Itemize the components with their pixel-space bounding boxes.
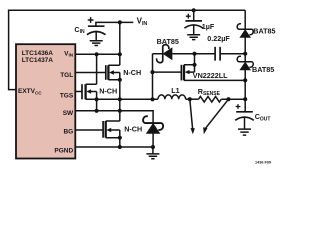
wire sense line 2 <box>206 99 229 128</box>
transistor Q3 N-CH (bottom sync) <box>102 121 104 138</box>
diode D4 BAT85 (second right) <box>237 56 253 70</box>
node dot Q3 source <box>118 136 122 140</box>
wire right rail top (rail corner to D3) <box>244 10 246 29</box>
ground (COUT) <box>238 129 251 135</box>
node dot SW rail x Q1 column <box>118 97 122 101</box>
transistor Q2 N-CH (small top) <box>81 84 83 99</box>
svg-text:1436 F09: 1436 F09 <box>255 161 271 165</box>
arrow sense 2 <box>203 127 207 134</box>
wire VIN column vertical (to Q1 drain) <box>119 22 121 65</box>
wire TGL to Q1 gate <box>75 72 106 74</box>
wire SW pin run <box>75 111 153 123</box>
capacitor 1uF plus sign <box>186 14 191 19</box>
diode D1 catch schottky <box>143 116 163 134</box>
svg-text:N-CH: N-CH <box>99 86 117 95</box>
node dot SW pin x Q2 drop <box>95 109 99 113</box>
svg-text:1µF: 1µF <box>202 22 215 31</box>
svg-text:0.22µF: 0.22µF <box>207 34 230 43</box>
node dot VN drain <box>192 63 196 67</box>
node dot output rail x RSENSE <box>243 97 247 101</box>
svg-text:VN2222LL: VN2222LL <box>193 71 228 80</box>
transistor Q4 VN2222LL <box>180 65 182 81</box>
svg-text:TGS: TGS <box>60 93 74 100</box>
capacitor CIN plates <box>88 25 105 27</box>
ground (1uF) <box>187 35 200 40</box>
wire L1 to RSENSE <box>186 98 199 100</box>
IC U1 LTC1436A/LTC1437A body <box>16 44 75 158</box>
wire BG to Q3 gate <box>75 129 103 131</box>
wire charge pump row <box>153 53 246 55</box>
node dot pump x right rail <box>243 52 247 56</box>
node dot PGND x Q3 <box>118 145 122 149</box>
svg-text:CIN: CIN <box>74 25 85 35</box>
wire VN gate lead <box>153 71 182 73</box>
svg-text:PGND: PGND <box>54 147 73 154</box>
node dot SW pin x Q1/Q3 column <box>118 109 122 113</box>
transistor Q1 N-CH (top main) <box>105 65 107 80</box>
wire RSENSE to output rail <box>221 98 245 100</box>
wire catch diode anode to PGND <box>152 133 154 147</box>
node dot L1/RSENSE junction <box>188 97 192 101</box>
node dot VIN column <box>118 20 122 24</box>
ground (CIN) <box>90 41 103 46</box>
wire switch node rail (sources to L1) <box>86 98 158 100</box>
wire EXTVCC left rail (top rail to EXTVCC pin) <box>9 10 246 89</box>
wire VN source to output rail <box>184 79 245 81</box>
node dot PGND x catch diode <box>151 145 155 149</box>
wire D3 to pump node <box>244 37 246 53</box>
svg-text:SW: SW <box>63 110 74 117</box>
node dot output rail x VN source <box>243 78 247 82</box>
inductor L1 <box>158 95 186 99</box>
wire Q3 source drop <box>119 138 121 147</box>
node dot 1uF tap on top rail <box>192 8 196 12</box>
node dot SW rail x Q2 <box>95 97 99 101</box>
wire TGS to Q2 gate <box>75 91 82 93</box>
diode D2 BAT85 (pointing left) <box>157 45 173 63</box>
capacitor 1uF plates <box>185 20 202 22</box>
wire Q1 source to Q3 drain column <box>119 80 121 121</box>
svg-text:BAT85: BAT85 <box>157 37 179 46</box>
node dot boost column x VN gate <box>150 70 154 74</box>
wire Q2 source drop <box>96 99 98 111</box>
svg-text:L1: L1 <box>171 86 179 95</box>
svg-text:N-CH: N-CH <box>123 68 141 77</box>
svg-text:N-CH: N-CH <box>124 124 142 133</box>
wire sense line 1 <box>190 99 193 129</box>
diode D3 BAT85 (top right) <box>237 24 253 38</box>
svg-text:COUT: COUT <box>255 112 271 122</box>
capacitor 1uF (lead) <box>193 10 195 21</box>
node dot Q1 source <box>118 78 122 82</box>
node dot VIN pin x VIN column <box>118 52 122 56</box>
capacitor COUT plates <box>236 111 253 113</box>
svg-text:BG: BG <box>63 129 73 136</box>
capacitor 0.22uF <box>215 47 220 61</box>
svg-text:VIN: VIN <box>137 17 148 28</box>
svg-text:RSENSE: RSENSE <box>198 87 221 97</box>
svg-text:TGL: TGL <box>60 72 73 79</box>
node dot pump x VN drain riser <box>192 52 196 56</box>
svg-text:BAT85: BAT85 <box>252 65 274 74</box>
wire boost column (charge pump node down to catch diode) <box>152 54 154 99</box>
wire PGND run <box>75 146 152 148</box>
capacitor COUT plus sign <box>236 104 241 109</box>
capacitor CIN plus sign <box>88 17 94 23</box>
ground (PGND) <box>146 147 159 159</box>
svg-text:BAT85: BAT85 <box>253 27 275 36</box>
svg-text:LTC1437A: LTC1437A <box>22 57 54 64</box>
node dot RSENSE right junction <box>226 97 230 101</box>
node dot VIN pin x Q2 drain riser <box>95 52 99 56</box>
wire Q2 drain riser <box>96 54 98 84</box>
arrow sense 1 <box>191 128 195 134</box>
wire VIN pin to FET drains column <box>75 53 120 55</box>
resistor RSENSE <box>199 96 222 102</box>
wire D4 to output rail <box>244 54 246 112</box>
wire VN drain riser <box>194 54 196 65</box>
node dot SW rail x boost column <box>150 97 154 101</box>
wire VIN input (cap lead to label) <box>96 22 133 26</box>
